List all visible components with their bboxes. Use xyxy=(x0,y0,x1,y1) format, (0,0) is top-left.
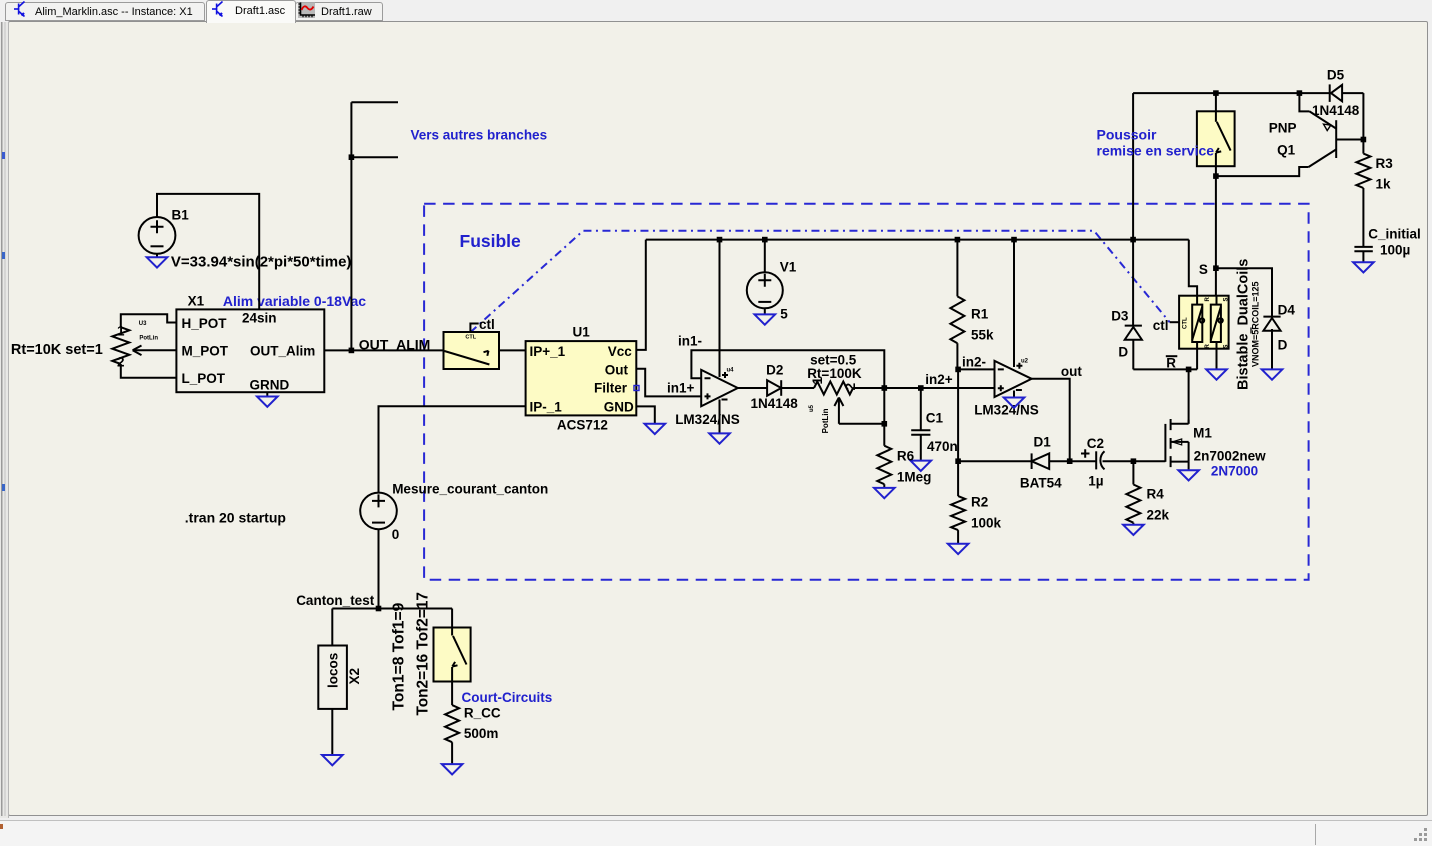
node Canton_test xyxy=(376,606,382,612)
svg-text:locos: locos xyxy=(326,653,341,688)
node Rbar xyxy=(1186,367,1192,373)
ground U2 supply xyxy=(1004,398,1025,408)
tab3 waveform icon xyxy=(298,3,315,19)
wire pot U5 wiper to vertical xyxy=(839,423,884,425)
svg-text:u4: u4 xyxy=(727,368,735,374)
wire top-right rail xyxy=(1133,92,1330,94)
svg-text:D1: D1 xyxy=(1034,435,1052,450)
wire in2+ row xyxy=(884,387,994,389)
svg-text:in1+: in1+ xyxy=(667,381,695,396)
svg-text:D: D xyxy=(1278,338,1288,353)
ground C_initial xyxy=(1353,262,1374,272)
node pushbutton bottom xyxy=(1213,173,1219,179)
node wiper xyxy=(882,421,888,427)
voltage source Mesure_courant_canton xyxy=(360,493,397,530)
svg-text:Mesure_courant_canton: Mesure_courant_canton xyxy=(392,482,548,497)
wire U1 Out down to in1+ xyxy=(636,369,701,397)
svg-text:ctl: ctl xyxy=(1153,318,1169,333)
svg-text:.tran 20 startup: .tran 20 startup xyxy=(185,510,286,526)
svg-text:2N7000: 2N7000 xyxy=(1211,464,1258,479)
svg-text:ctl: ctl xyxy=(479,317,495,332)
svg-text:S: S xyxy=(1199,262,1208,277)
svg-text:in2+: in2+ xyxy=(925,372,953,387)
wire pushbutton top xyxy=(1215,93,1217,111)
node Q1 base R3 xyxy=(1361,137,1367,143)
svg-text:5: 5 xyxy=(780,307,788,322)
wire V+ rail xyxy=(646,239,1189,241)
svg-text:OUT_Alim: OUT_Alim xyxy=(250,344,315,359)
svg-text:Ton2=16 Tof2=17: Ton2=16 Tof2=17 xyxy=(415,592,432,715)
svg-text:Rt=10K set=1: Rt=10K set=1 xyxy=(11,342,103,358)
wire R3 to C_initial xyxy=(1362,188,1364,247)
wire vers autres branches stub 2 xyxy=(351,156,398,158)
wire vers autres branches vertical xyxy=(350,102,352,350)
svg-text:C2: C2 xyxy=(1087,436,1104,451)
node D1 R2 xyxy=(955,458,961,464)
svg-text:1Meg: 1Meg xyxy=(897,470,932,485)
status bar xyxy=(0,820,1432,846)
node U4 supply rail xyxy=(717,237,723,243)
resistor R_CC xyxy=(445,705,459,742)
wire vers autres branches stub 1 xyxy=(351,101,398,103)
ground U4 supply xyxy=(709,433,730,443)
node R1 rail xyxy=(955,237,961,243)
svg-text:ACS712: ACS712 xyxy=(557,418,608,433)
ground D4 xyxy=(1262,369,1283,379)
svg-text:R6: R6 xyxy=(897,449,915,464)
svg-text:LM324/NS: LM324/NS xyxy=(675,412,740,427)
svg-text:R: R xyxy=(1205,344,1211,349)
svg-text:R_CC: R_CC xyxy=(464,706,501,721)
svg-text:Vers autres branches: Vers autres branches xyxy=(411,128,548,143)
left sliver ridges xyxy=(1,22,3,816)
svg-text:R3: R3 xyxy=(1376,156,1394,171)
svg-text:R2: R2 xyxy=(971,495,988,510)
wire B1 ground stub xyxy=(156,254,158,257)
subcircuit X2 locos box xyxy=(318,646,347,709)
svg-text:R4: R4 xyxy=(1147,487,1165,502)
wire C_initial to ground xyxy=(1362,251,1364,262)
wire vertical down to D3 xyxy=(1132,93,1134,326)
wire in1- feedback xyxy=(691,350,884,445)
wire B1 top to X1 xyxy=(157,194,259,310)
switch court-circuits (yellow box) xyxy=(434,628,471,682)
capacitor C_initial xyxy=(1354,247,1372,251)
ground R_CC xyxy=(442,764,463,774)
wire R1 bottom to in2- xyxy=(956,343,958,369)
svg-text:470n: 470n xyxy=(927,439,958,454)
comment box Fusible (dashed rect) xyxy=(424,204,1309,580)
capacitor C1 xyxy=(911,388,930,461)
wire OUT_ALIM row xyxy=(324,349,443,351)
svg-text:1µ: 1µ xyxy=(1088,474,1103,489)
svg-text:S: S xyxy=(1224,297,1230,301)
ground C1 xyxy=(911,461,932,471)
wire pot U5 wiper arrow xyxy=(838,399,840,424)
svg-text:X1: X1 xyxy=(188,294,205,309)
node C1 top xyxy=(918,385,924,391)
wire in2- down to D1 row and R2 xyxy=(957,369,959,496)
svg-text:LM324/NS: LM324/NS xyxy=(974,403,1039,418)
node OUT_ALIM xyxy=(349,348,355,354)
node S xyxy=(1213,265,1219,271)
svg-text:55k: 55k xyxy=(971,328,994,343)
diode D3 (pointing up) xyxy=(1125,325,1142,327)
wire M1 drain up to Rbar xyxy=(1188,369,1190,423)
wire R4 top xyxy=(1132,461,1134,484)
wire D1 row left xyxy=(958,460,1032,462)
svg-text:Filter: Filter xyxy=(594,381,628,396)
svg-text:PotLin: PotLin xyxy=(139,336,158,342)
switch poussoir (yellow box) xyxy=(1197,111,1235,166)
wire R4 to ground xyxy=(1132,523,1134,525)
wire Rbar row xyxy=(1133,368,1197,370)
wire D5 cathode left xyxy=(1342,92,1363,94)
svg-text:100µ: 100µ xyxy=(1380,243,1410,258)
svg-text:1N4148: 1N4148 xyxy=(751,396,799,411)
svg-text:2n7002new: 2n7002new xyxy=(1194,449,1267,464)
potentiometer U3 xyxy=(112,327,129,364)
svg-text:GRND: GRND xyxy=(250,378,290,393)
svg-text:1: 1 xyxy=(117,324,125,339)
wire rail jog to bistable R coil xyxy=(1189,240,1197,296)
ground R4 xyxy=(1123,525,1144,535)
wire bistable R coil bottom xyxy=(1196,349,1198,370)
node C2 R4 M1 xyxy=(1131,458,1137,464)
diode D5 (pointing left) xyxy=(1329,84,1331,102)
potentiometer U5 xyxy=(814,382,853,395)
svg-text:100k: 100k xyxy=(971,516,1002,531)
voltage source B1 xyxy=(139,217,176,254)
svg-text:V=33.94*sin(2*pi*50*time): V=33.94*sin(2*pi*50*time) xyxy=(171,254,352,271)
wire R1 top xyxy=(956,240,958,297)
svg-text:M_POT: M_POT xyxy=(182,344,229,359)
svg-text:24sin: 24sin xyxy=(242,311,277,326)
svg-text:Q1: Q1 xyxy=(1277,143,1296,158)
svg-text:R: R xyxy=(1166,356,1176,371)
wire X2 bottom to ground xyxy=(331,709,333,755)
node out down xyxy=(1067,458,1073,464)
wire V1 bottom xyxy=(764,308,766,314)
wire Mesure source bottom xyxy=(378,529,380,608)
resistor R2 xyxy=(951,496,965,530)
node in2- xyxy=(955,367,961,373)
ground U1 GND xyxy=(645,424,666,434)
wire D1 to C2 xyxy=(1049,460,1096,462)
node pushbutton top xyxy=(1213,90,1219,96)
wire U2 V- stub xyxy=(1013,391,1015,398)
svg-text:Vcc: Vcc xyxy=(608,344,633,359)
switch ctl (yellow box) xyxy=(444,332,500,369)
wire pushbutton bottom to S xyxy=(1215,166,1217,296)
svg-text:C_initial: C_initial xyxy=(1368,227,1421,242)
wire C2 to M1 gate xyxy=(1103,460,1166,462)
node D3 rail xyxy=(1130,237,1136,243)
node V1 rail xyxy=(762,237,768,243)
resistor R6 xyxy=(877,446,891,485)
svg-text:Rt=100K: Rt=100K xyxy=(807,366,862,381)
svg-text:in2-: in2- xyxy=(962,355,986,370)
wire D2 to pot U5 xyxy=(781,387,814,389)
svg-text:remise en service: remise en service xyxy=(1097,143,1215,159)
wire in2- to U2 inverting input xyxy=(957,368,994,370)
ground R6 xyxy=(874,488,895,498)
svg-text:Court-Circuits: Court-Circuits xyxy=(462,690,553,705)
wire Q1 emitter to rail xyxy=(1299,93,1309,111)
IC U1 ACS712 (yellow box) xyxy=(526,341,637,415)
wire U1 GND to ground xyxy=(636,406,655,423)
wire D5 right down through base to R3 xyxy=(1362,93,1364,154)
svg-text:22k: 22k xyxy=(1147,508,1170,523)
wire R2 to ground xyxy=(957,530,959,544)
status bar resize grip xyxy=(1414,828,1427,841)
svg-text:out: out xyxy=(1061,364,1082,379)
svg-text:B1: B1 xyxy=(172,208,190,223)
wire V1 to rail xyxy=(764,240,766,273)
diode D2 xyxy=(767,380,781,396)
left toolbar sliver xyxy=(0,22,9,818)
relay bistable DualCoils (yellow box) xyxy=(1179,296,1229,349)
svg-text:Fusible: Fusible xyxy=(460,231,522,251)
wire pot U5 to in2+ junction xyxy=(853,387,884,389)
svg-text:VNOM=5RCOIL=125: VNOM=5RCOIL=125 xyxy=(1251,281,1261,367)
wire U1 IP- to Mesure source xyxy=(379,406,526,492)
wire U2 V+ supply xyxy=(1013,240,1015,367)
svg-text:Out: Out xyxy=(605,363,629,378)
ground X1 GRND xyxy=(257,397,278,407)
svg-text:u2: u2 xyxy=(1021,359,1029,365)
voltage source V1 xyxy=(747,272,783,308)
svg-text:CTL: CTL xyxy=(465,335,476,341)
svg-text:Canton_test: Canton_test xyxy=(296,593,375,608)
node vers branches xyxy=(349,154,355,160)
resistor R4 xyxy=(1126,485,1140,523)
wire Q1 collector to pushbutton xyxy=(1216,167,1309,176)
svg-text:H_POT: H_POT xyxy=(182,316,228,331)
wire R6 to ground xyxy=(883,484,885,488)
ground B1 xyxy=(147,257,168,267)
svg-text:X2: X2 xyxy=(347,668,362,685)
diode D4 (pointing up) xyxy=(1263,316,1280,318)
wire pot U3 bottom to L_POT xyxy=(121,364,177,378)
node U2 supply rail xyxy=(1011,237,1017,243)
svg-text:in1-: in1- xyxy=(678,334,702,349)
unconnected Filter pin marker xyxy=(634,386,639,391)
comment dash-dot line ctl link xyxy=(470,231,1169,333)
wire D4 to ground xyxy=(1271,329,1273,369)
op-amp U4 xyxy=(701,370,738,406)
wire R_CC to ground xyxy=(451,742,453,764)
svg-text:D: D xyxy=(1118,345,1128,360)
wire U4 V+ supply xyxy=(719,240,721,377)
wire U4 V- to ground xyxy=(719,400,721,434)
svg-text:PNP: PNP xyxy=(1269,121,1297,136)
svg-text:1k: 1k xyxy=(1376,177,1392,192)
svg-text:1N4148: 1N4148 xyxy=(1312,103,1360,118)
svg-text:2: 2 xyxy=(843,383,858,391)
tab1 schematic icon xyxy=(14,2,25,17)
svg-text:M1: M1 xyxy=(1193,426,1212,441)
svg-text:R1: R1 xyxy=(971,307,989,322)
svg-text:u5: u5 xyxy=(809,404,815,412)
ground V1 xyxy=(755,314,776,324)
wire U1 Vcc up to rail xyxy=(636,240,646,350)
nmos M1 xyxy=(1165,419,1188,470)
svg-text:Poussoir: Poussoir xyxy=(1097,127,1157,143)
svg-text:IP-_1: IP-_1 xyxy=(530,400,563,415)
svg-text:L_POT: L_POT xyxy=(182,371,226,386)
resistor R1 xyxy=(950,296,964,343)
svg-text:Bistable DualCoils: Bistable DualCoils xyxy=(1236,259,1252,390)
svg-text:R: R xyxy=(1205,297,1211,302)
svg-text:D5: D5 xyxy=(1327,68,1345,83)
ground M1 source xyxy=(1178,470,1199,480)
svg-text:0: 0 xyxy=(392,527,400,542)
svg-text:500m: 500m xyxy=(464,726,499,741)
wire bistable S coil bottom to ground xyxy=(1216,349,1218,370)
wire to X2 locos xyxy=(331,609,333,646)
wire S row to D4 xyxy=(1216,268,1272,316)
capacitor C2 polarized xyxy=(1095,451,1097,469)
svg-text:C1: C1 xyxy=(926,411,944,426)
wire M_POT wiper with arrow xyxy=(133,349,177,351)
tab2 schematic icon xyxy=(212,2,223,17)
svg-text:2: 2 xyxy=(117,354,125,369)
ground bistable S coil xyxy=(1206,369,1227,379)
svg-text:GND: GND xyxy=(604,400,634,415)
diode D1 (BAT54, pointing left) xyxy=(1032,453,1050,469)
node Q1 emitter rail xyxy=(1297,90,1303,96)
svg-text:BAT54: BAT54 xyxy=(1020,476,1062,491)
svg-text:S: S xyxy=(1224,344,1230,348)
svg-text:D3: D3 xyxy=(1111,309,1129,324)
window chrome: tab bar xyxy=(0,0,1432,22)
wire Q1 base to R3 vertical xyxy=(1336,139,1363,141)
svg-text:CTL: CTL xyxy=(1183,317,1189,329)
wire ctl stub bistable xyxy=(1170,321,1179,323)
wire D3 bottom to Rbar row xyxy=(1132,340,1134,370)
svg-text:IP+_1: IP+_1 xyxy=(530,344,566,359)
wire X1 GRND stub xyxy=(266,392,268,396)
node in1- / in2+ xyxy=(882,385,888,391)
wire ctl label hook xyxy=(470,324,478,332)
ground R2 xyxy=(948,544,969,554)
wire pot U3 top to H_POT xyxy=(121,314,177,327)
svg-text:D2: D2 xyxy=(766,363,783,378)
svg-text:D4: D4 xyxy=(1278,303,1296,318)
svg-text:OUT_ALIM: OUT_ALIM xyxy=(359,337,431,353)
wire to court-circuits switch xyxy=(451,609,453,628)
svg-text:U1: U1 xyxy=(573,325,591,340)
svg-text:Alim variable 0-18Vac: Alim variable 0-18Vac xyxy=(223,293,366,309)
wire Canton_test row xyxy=(332,608,452,610)
subcircuit X1 box xyxy=(176,309,324,392)
svg-text:PotLin: PotLin xyxy=(821,408,830,433)
wire U2 out down to D1 row xyxy=(1032,379,1070,461)
resistor R3 xyxy=(1356,154,1370,188)
svg-text:U3: U3 xyxy=(139,321,147,327)
ground X2 xyxy=(322,755,343,765)
op-amp U2 xyxy=(995,361,1032,397)
wire ctl switch to U1 IP+ xyxy=(499,349,526,351)
wire switch to R_CC xyxy=(451,682,453,706)
svg-text:Ton1=8 Tof1=9: Ton1=8 Tof1=9 xyxy=(391,602,408,710)
pnp Q1 xyxy=(1309,111,1337,167)
wire U4 out to D2 xyxy=(738,387,767,389)
svg-text:V1: V1 xyxy=(780,260,797,275)
